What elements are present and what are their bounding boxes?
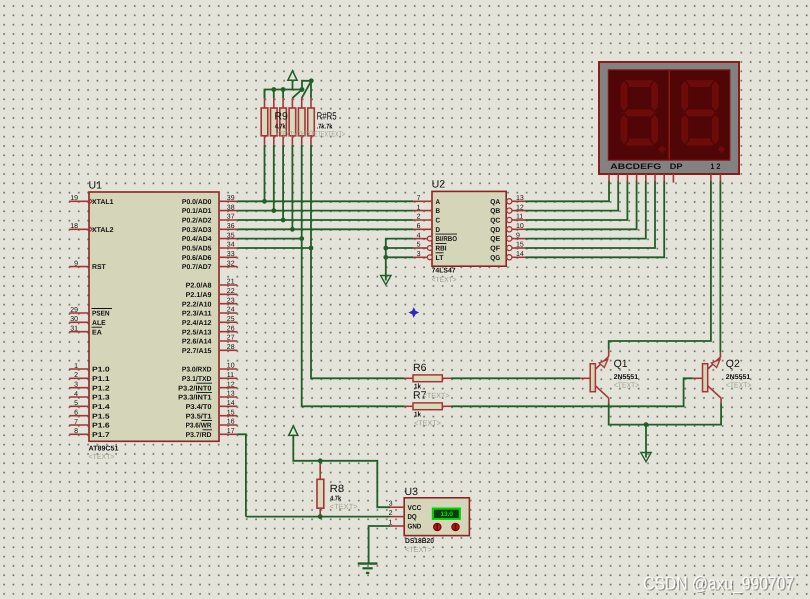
svg-text:18: 18 — [70, 223, 78, 230]
svg-text:1: 1 — [74, 363, 78, 370]
svg-text:P0.2/AD2: P0.2/AD2 — [182, 217, 212, 225]
svg-text:3: 3 — [389, 501, 393, 508]
svg-text:2: 2 — [389, 510, 393, 517]
svg-text:CSDN @axu_990707: CSDN @axu_990707 — [643, 572, 794, 593]
svg-text:P3.4/T0: P3.4/T0 — [186, 403, 212, 411]
svg-text:P1.4: P1.4 — [92, 404, 110, 411]
svg-text:32: 32 — [227, 260, 235, 267]
svg-text:29: 29 — [70, 307, 78, 314]
svg-text:P3.2/INT0: P3.2/INT0 — [178, 384, 211, 392]
svg-text:P1.3: P1.3 — [92, 395, 110, 402]
svg-text:LT: LT — [436, 255, 445, 262]
svg-text:P2.5/A13: P2.5/A13 — [182, 328, 212, 336]
svg-text:QF: QF — [490, 246, 501, 253]
svg-text:22: 22 — [227, 288, 235, 295]
svg-text:35: 35 — [227, 232, 235, 239]
svg-text:8: 8 — [74, 428, 78, 435]
svg-text:13: 13 — [516, 195, 524, 202]
svg-text:P0.3/AD3: P0.3/AD3 — [182, 226, 212, 234]
svg-text:U3: U3 — [405, 486, 419, 498]
svg-text:<TEXT>: <TEXT> — [432, 275, 458, 284]
svg-text:P3.1/TXD: P3.1/TXD — [182, 375, 212, 383]
svg-text:DQ: DQ — [408, 514, 418, 521]
svg-text:<TEXT>: <TEXT> — [423, 391, 451, 400]
svg-text:P0.5/AD5: P0.5/AD5 — [182, 245, 212, 253]
svg-text:B: B — [436, 208, 441, 215]
svg-text:A: A — [436, 199, 441, 206]
svg-text:1 2: 1 2 — [710, 162, 720, 171]
svg-text:34: 34 — [227, 242, 235, 249]
svg-text:P2.1/A9: P2.1/A9 — [186, 291, 212, 299]
svg-text:BI/RBO: BI/RBO — [436, 235, 458, 243]
svg-text:P3.0/RXD: P3.0/RXD — [182, 366, 212, 374]
svg-text:11: 11 — [227, 372, 234, 379]
svg-text:7: 7 — [74, 419, 78, 426]
svg-text:<TEXT>: <TEXT> — [414, 419, 442, 428]
svg-text:36: 36 — [227, 223, 235, 230]
svg-text:25: 25 — [227, 316, 235, 323]
svg-text:1: 1 — [389, 519, 393, 526]
svg-text:28: 28 — [227, 344, 235, 351]
svg-text:5: 5 — [417, 242, 421, 249]
svg-text:P2.2/A10: P2.2/A10 — [182, 300, 212, 308]
svg-text:15: 15 — [227, 409, 235, 416]
svg-text:30: 30 — [70, 316, 78, 323]
svg-text:D: D — [436, 227, 441, 234]
svg-text:4: 4 — [74, 391, 78, 398]
svg-text:16: 16 — [227, 419, 235, 426]
svg-text:P1.6: P1.6 — [92, 423, 110, 430]
svg-text:<TEXT>.7kEXTETEXTEXT>: <TEXT>.7kEXTETEXTEXT> — [276, 129, 345, 138]
svg-text:P3.5/T1: P3.5/T1 — [186, 412, 212, 420]
svg-text:<TEXT>: <TEXT> — [89, 452, 116, 461]
svg-text:24: 24 — [227, 307, 235, 314]
svg-text:13.0: 13.0 — [440, 511, 453, 518]
svg-text:P1.5: P1.5 — [92, 413, 110, 420]
svg-text:P0.4/AD4: P0.4/AD4 — [182, 235, 212, 243]
svg-text:9: 9 — [516, 232, 520, 239]
svg-text:RBI: RBI — [436, 246, 447, 253]
svg-text:U2: U2 — [432, 179, 446, 191]
svg-text:14: 14 — [516, 251, 524, 258]
svg-text:EA: EA — [92, 329, 102, 336]
svg-text:33: 33 — [227, 251, 235, 258]
svg-text:15: 15 — [516, 242, 524, 249]
svg-text:37: 37 — [227, 214, 235, 221]
svg-text:R#R5: R#R5 — [317, 110, 337, 122]
svg-text:P2.7/A15: P2.7/A15 — [182, 347, 212, 355]
svg-text:P2.0/A8: P2.0/A8 — [186, 282, 212, 290]
svg-text:P1.7: P1.7 — [92, 432, 110, 439]
svg-text:U1: U1 — [89, 179, 103, 191]
svg-text:ALE: ALE — [92, 320, 106, 327]
svg-text:10: 10 — [227, 363, 235, 370]
svg-text:P1.1: P1.1 — [92, 376, 110, 383]
svg-text:DP: DP — [670, 162, 683, 171]
svg-text:23: 23 — [227, 297, 235, 304]
svg-text:R6: R6 — [413, 362, 427, 374]
svg-text:1: 1 — [417, 204, 421, 211]
svg-text:3: 3 — [417, 251, 421, 258]
svg-text:P2.3/A11: P2.3/A11 — [182, 310, 212, 318]
svg-text:1k: 1k — [414, 411, 421, 419]
svg-text:ABCDEFG: ABCDEFG — [610, 162, 661, 171]
svg-text:19: 19 — [70, 195, 78, 202]
svg-text:<TEXT>: <TEXT> — [405, 545, 433, 554]
svg-text:P3.6/WR: P3.6/WR — [186, 422, 212, 430]
svg-text:<TEXT>: <TEXT> — [726, 381, 752, 390]
svg-text:PSEN: PSEN — [92, 311, 110, 318]
svg-text:6: 6 — [74, 410, 78, 417]
svg-text:QC: QC — [490, 218, 500, 225]
svg-text:14: 14 — [227, 400, 235, 407]
svg-text:P2.6/A14: P2.6/A14 — [182, 338, 212, 346]
svg-text:21: 21 — [227, 279, 235, 286]
svg-text:13: 13 — [227, 391, 235, 398]
svg-text:P1.0: P1.0 — [92, 367, 110, 374]
svg-text:12: 12 — [516, 204, 524, 211]
svg-text:XTAL1: XTAL1 — [92, 199, 114, 206]
svg-text:2: 2 — [417, 214, 421, 221]
svg-text:P3.7/RD: P3.7/RD — [186, 431, 212, 439]
svg-text:27: 27 — [227, 335, 235, 342]
svg-text:QB: QB — [490, 208, 500, 215]
svg-text:P0.7/AD7: P0.7/AD7 — [182, 263, 212, 271]
svg-text:VCC: VCC — [408, 505, 422, 512]
svg-text:QA: QA — [490, 199, 500, 206]
svg-text:2: 2 — [74, 372, 78, 379]
svg-text:P1.2: P1.2 — [92, 385, 110, 392]
svg-text:11: 11 — [516, 214, 523, 221]
svg-text:10: 10 — [516, 223, 524, 230]
svg-text:31: 31 — [70, 326, 78, 333]
svg-text:3: 3 — [74, 382, 78, 389]
svg-text:QD: QD — [490, 227, 500, 234]
svg-text:6: 6 — [417, 223, 421, 230]
svg-text:QG: QG — [490, 255, 501, 262]
svg-text:<TEXT>: <TEXT> — [330, 502, 359, 511]
svg-text:17: 17 — [227, 428, 235, 435]
svg-text:26: 26 — [227, 325, 235, 332]
svg-text:XTAL2: XTAL2 — [92, 227, 114, 234]
svg-text:Q2: Q2 — [726, 358, 740, 370]
svg-text:DS18B20: DS18B20 — [405, 538, 434, 545]
svg-text:38: 38 — [227, 204, 235, 211]
svg-text:QE: QE — [490, 236, 500, 243]
svg-text:P0.1/AD1: P0.1/AD1 — [182, 207, 212, 215]
svg-text:74LS47: 74LS47 — [432, 267, 456, 274]
svg-text:GND: GND — [408, 524, 422, 531]
svg-text:R9: R9 — [274, 110, 288, 122]
svg-text:C: C — [436, 218, 441, 225]
svg-text:<TEXT>: <TEXT> — [614, 381, 640, 390]
svg-text:Q1: Q1 — [614, 358, 628, 370]
svg-text:P0.6/AD6: P0.6/AD6 — [182, 254, 212, 262]
svg-text:12: 12 — [227, 381, 235, 388]
svg-text:39: 39 — [227, 195, 235, 202]
svg-text:9: 9 — [74, 260, 78, 267]
svg-text:R8: R8 — [330, 483, 345, 495]
svg-text:RST: RST — [92, 264, 106, 271]
svg-text:4: 4 — [417, 232, 421, 239]
svg-text:P3.3/INT1: P3.3/INT1 — [178, 394, 211, 402]
svg-text:P0.0/AD0: P0.0/AD0 — [182, 198, 212, 206]
svg-text:7: 7 — [417, 195, 421, 202]
svg-text:5: 5 — [74, 400, 78, 407]
svg-text:P2.4/A12: P2.4/A12 — [182, 319, 212, 327]
